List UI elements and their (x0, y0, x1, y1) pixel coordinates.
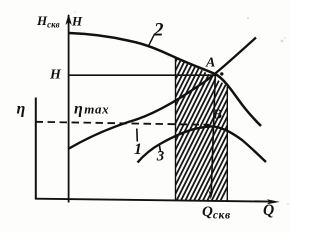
svg-text:ηmax: ηmax (74, 101, 109, 118)
curve 1 well characteristic line through A (69, 38, 256, 149)
H axis arrowhead (65, 14, 71, 25)
curve 2 pump head H-Q (69, 33, 261, 126)
Q axis arrowhead (267, 199, 280, 204)
svg-text:H: H (71, 14, 83, 29)
svg-text:H: H (49, 68, 62, 83)
Q_skv vertical line with down arrow (211, 75, 215, 193)
Q axis (horizontal) (35, 199, 272, 202)
hatched operating region (101, 56, 293, 202)
band right edge (226, 87, 228, 201)
band left edge (175, 57, 177, 200)
faint scan speckles (74, 11, 289, 205)
svg-text:Q: Q (263, 202, 274, 219)
label 1 with leader (136, 129, 139, 142)
eta axis (vertical) (35, 98, 37, 200)
point A dot (220, 72, 223, 75)
label 2 with leader (149, 34, 155, 46)
svg-text:3: 3 (156, 149, 165, 165)
H level line to point A (69, 74, 216, 76)
curve 3 efficiency eta-Q (138, 126, 267, 162)
H axis (vertical) (68, 15, 70, 203)
svg-text:2: 2 (153, 20, 164, 41)
dashed eta-max line (36, 122, 210, 125)
svg-text:η: η (17, 101, 26, 118)
svg-text:1: 1 (134, 141, 142, 158)
svg-text:B: B (212, 108, 222, 123)
label 3 with leader (160, 146, 161, 153)
svg-text:A: A (205, 56, 215, 71)
